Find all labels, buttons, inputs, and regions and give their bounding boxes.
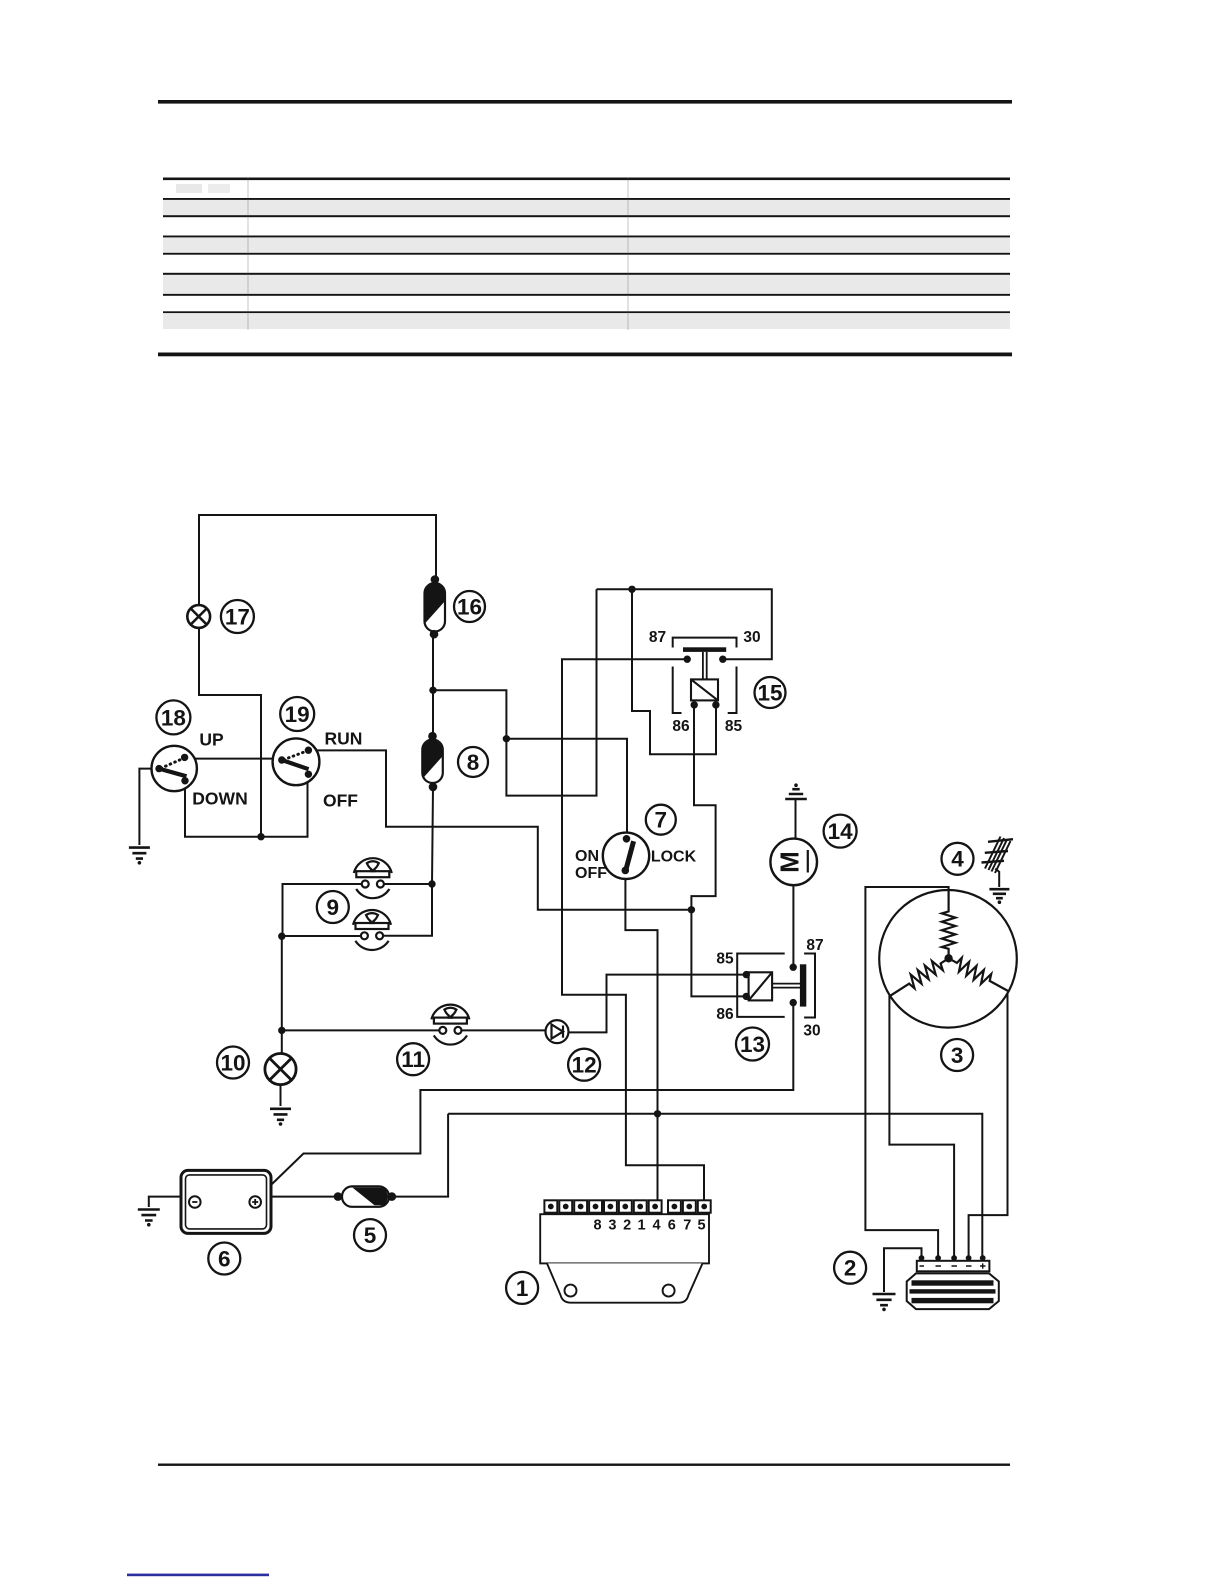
wire relay15 terminal 87 down to CDI pin 4 [562,659,704,1200]
wire motor14 to relay13 terminal 87 [792,885,794,965]
fuse F16 [425,575,446,638]
relay 13 outline bracket [737,954,815,1018]
relay 15 outline bracket [673,638,737,713]
table line 7 [163,294,1010,296]
table row 4 gray band [163,238,1010,253]
svg-text:6: 6 [218,1246,231,1271]
callout 2 [834,1252,866,1284]
svg-text:30: 30 [743,629,760,646]
table line 4 [163,236,1010,238]
ground at switch 18 [129,848,150,865]
push switch 9 upper [354,858,392,898]
callout 17 [221,600,254,633]
wire battery negative to ground [149,1197,180,1207]
table line 8 [163,311,1010,313]
ground at battery 6 [138,1210,160,1227]
table header top border [163,178,1010,181]
fuse F5 [334,1186,396,1206]
table row 2 gray band [163,200,1010,215]
node J6 junction dot [628,586,635,593]
svg-text:15: 15 [757,680,782,705]
wire switch18 left contact to ground [139,769,157,845]
svg-text:17: 17 [225,604,250,629]
wire switch18 upper contact to switch19 left contact [187,758,279,760]
motor 14 [770,839,817,886]
svg-text:10: 10 [220,1050,245,1075]
wire node J5 to ignition switch7 top [506,739,627,836]
svg-text:3: 3 [951,1043,964,1068]
switch 18 [152,746,197,791]
relay 13 contact bar [772,964,806,1007]
callout 10 [217,1047,249,1079]
wire lamp17 bottom to node J1 [199,628,261,835]
callout 8 [458,747,488,777]
CDI unit 1 body [540,1214,709,1303]
wire lamp10 to ground [280,1085,282,1106]
svg-text:1: 1 [516,1276,529,1301]
push switch 9 lower [353,910,391,950]
node J3 junction dot [429,687,436,694]
svg-text:1: 1 [638,1218,646,1234]
svg-text:86: 86 [716,1006,734,1023]
spark suppressor 4 [982,837,1014,874]
ground at lamp 10 [270,1109,291,1126]
node J8 junction dot [278,933,285,940]
diode 12 [546,1020,569,1043]
svg-text:11: 11 [401,1047,425,1072]
wire switch11 right contact to diode12 anode [461,1029,546,1031]
svg-text:85: 85 [716,951,734,968]
callout 6 [208,1243,240,1275]
wire relay13 terminal 85 to diode12 cathode [569,975,745,1033]
wire top loop lamp17 to fuse16 [199,515,436,605]
callout 5 [354,1219,386,1251]
wire relay15 terminal 86 to node J2 [691,708,715,910]
callout 4 [942,843,974,875]
wire fuse16 to fuse8 vertical rail [432,634,434,736]
wire supply bus to regulator pin 5 [448,1114,982,1256]
node J2 junction dot [688,906,695,913]
wire relay13 terminal 30 to battery positive [258,1005,793,1198]
svg-text:87: 87 [649,629,666,646]
regulator 2 heatsink body [907,1273,999,1309]
callout 13 [736,1028,769,1061]
node J1 junction dot [257,833,264,840]
svg-text:6: 6 [668,1218,676,1234]
svg-text:9: 9 [327,895,340,920]
svg-text:8: 8 [593,1218,601,1234]
node J9 junction dot [654,1110,661,1117]
relay 13 coil [743,971,773,1001]
wire fuse5 to supply bus [394,1114,448,1197]
wire node J7 to switch11 left contact [282,1029,440,1031]
svg-text:LOCK: LOCK [651,849,697,866]
wire switch9 upper right contact to rail [382,883,432,885]
wire node J5 to relay15 top rail [506,589,596,795]
svg-text:13: 13 [740,1032,765,1057]
table row 8 gray band [163,314,1010,330]
svg-text:5: 5 [697,1218,705,1234]
node J7 junction dot [278,1027,285,1034]
wire stator phase 1 to regulator pin 2 [865,887,948,1256]
switch 19 [273,738,320,785]
wire ignition switch7 bottom to CDI pin 1 [625,874,657,1201]
table line 3 [163,215,1010,217]
callout 7 [646,805,676,835]
table line 5 [163,253,1010,255]
ignition switch 7 [603,833,649,879]
table row 6 gray band [163,275,1010,293]
svg-text:OFF: OFF [575,865,607,882]
wire stator phase 3 to regulator pin 4 [969,991,1008,1257]
stator 3 [879,890,1017,1028]
ground at spark suppressor 4 [989,889,1009,904]
top page rule [158,100,1012,104]
wire node J8 to switch9 lower left contact [282,935,362,937]
regulator 2 terminal strip [917,1255,990,1271]
wire node J3 to node J5 [433,690,506,739]
svg-text:OFF: OFF [323,791,358,811]
svg-text:87: 87 [806,937,823,954]
footer link underline [127,1574,269,1577]
svg-text:4: 4 [951,847,964,872]
svg-text:7: 7 [655,808,668,833]
svg-text:8: 8 [467,750,480,775]
svg-text:30: 30 [803,1023,820,1040]
callout 11 [397,1043,429,1075]
callout 3 [941,1039,973,1071]
svg-text:18: 18 [161,705,186,730]
callout 12 [568,1049,600,1081]
lamp 17 [187,605,210,628]
svg-text:85: 85 [725,718,743,735]
callout 9 [317,891,349,923]
table line 2 [163,198,1010,200]
push switch 11 [431,1005,469,1045]
callout 18 [156,700,190,734]
svg-text:RUN: RUN [325,729,363,749]
svg-text:14: 14 [828,819,854,844]
callout 19 [280,697,314,731]
svg-text:86: 86 [672,718,690,735]
CDI unit 1 connector [544,1200,710,1212]
ground above motor 14 (inverted) [785,783,807,799]
callout 16 [454,591,485,622]
wire regulator pin 1 to ground [884,1248,922,1292]
relay 15 coil [691,679,720,708]
callout 15 [755,677,786,708]
wire relay15 top rail to terminal 30 [597,589,772,659]
table bottom rule [158,353,1012,357]
svg-text:19: 19 [285,702,310,727]
wire node J8 down through node J7 to lamp10 [281,936,283,1054]
svg-text:2: 2 [844,1256,857,1281]
svg-text:3: 3 [608,1218,616,1234]
table column tick marks [248,178,628,331]
svg-text:5: 5 [364,1223,377,1248]
svg-text:ON: ON [575,848,599,865]
callout 1 [506,1272,538,1304]
lower page rule [158,1464,1010,1466]
table header ghost text [176,184,202,193]
relay 15 contact bar [683,647,727,679]
wire switch19 RUN contact to node J2 [310,750,689,909]
svg-text:DOWN: DOWN [192,789,247,809]
wire switch9 lamp bus to lamp10 [283,884,364,936]
wire switch18 lower contact to switch19 lower contact [185,776,308,837]
wire motor14 to ground above [795,800,797,839]
svg-text:16: 16 [457,594,482,619]
table line 6 [163,273,1010,275]
fuse F8 [422,732,443,791]
battery 6 [181,1170,271,1233]
wire node J6 to relay15 terminal 85 [632,589,716,754]
lamp 10 [265,1054,296,1085]
svg-text:4: 4 [652,1218,660,1234]
svg-text:12: 12 [572,1053,597,1078]
node J4 junction dot [428,880,435,887]
wire fuse8 to switch9 rail [382,787,433,936]
svg-text:2: 2 [623,1218,631,1234]
node J5 junction dot [503,735,510,742]
wire stator phase 2 to regulator pin 3 [889,996,954,1257]
svg-text:7: 7 [683,1218,691,1234]
svg-text:M: M [774,851,804,873]
wire battery positive to fuse5 [272,1196,336,1198]
wire spark suppressor to ground [995,869,999,887]
ground at regulator 2 [873,1294,896,1311]
wire node J2 to relay13 terminal 86 [691,910,744,997]
callout 14 [824,815,857,848]
svg-text:UP: UP [199,730,224,750]
